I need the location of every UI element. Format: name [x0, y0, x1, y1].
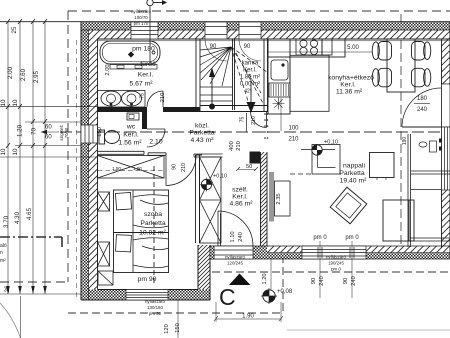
svg-text:2.95: 2.95 [33, 70, 40, 83]
svg-text:4.43 m²: 4.43 m² [190, 137, 214, 144]
svg-text:+0,10: +0,10 [324, 140, 338, 146]
svg-text:240: 240 [238, 232, 244, 242]
svg-text:pm 90: pm 90 [149, 311, 162, 316]
svg-text:szélf.: szélf. [232, 187, 248, 194]
svg-text:210: 210 [288, 137, 299, 143]
svg-text:nyílászáró: nyílászáró [225, 255, 246, 260]
svg-text:90: 90 [172, 164, 178, 170]
svg-text:közl.: közl. [195, 123, 209, 130]
svg-text:kamra: kamra [242, 61, 259, 67]
svg-text:5.00: 5.00 [347, 45, 359, 51]
svg-text:4.30: 4.30 [14, 211, 21, 224]
svg-text:1.90: 1.90 [242, 314, 254, 320]
svg-text:11.36 m²: 11.36 m² [336, 89, 363, 96]
svg-text:1.20: 1.20 [17, 124, 24, 137]
svg-text:90: 90 [244, 44, 251, 50]
svg-text:m²: m² [0, 258, 6, 264]
svg-text:60: 60 [45, 135, 52, 141]
svg-text:aló: aló [0, 243, 7, 249]
svg-text:C: C [219, 284, 236, 310]
svg-text:Ker.l.: Ker.l. [340, 82, 356, 89]
svg-text:10: 10 [0, 148, 7, 155]
svg-text:120: 120 [164, 324, 170, 334]
svg-text:pm 0: pm 0 [313, 235, 327, 241]
svg-text:Parketta: Parketta [189, 130, 215, 137]
svg-text:150: 150 [97, 127, 103, 137]
svg-text:60: 60 [45, 125, 52, 131]
svg-text:130/160: 130/160 [147, 305, 163, 310]
svg-text:4.65: 4.65 [26, 207, 33, 220]
svg-text:1.10: 1.10 [230, 231, 236, 242]
svg-text:pm 0: pm 0 [331, 267, 341, 272]
svg-text:240: 240 [417, 107, 428, 113]
svg-text:50: 50 [246, 164, 252, 170]
svg-text:70: 70 [31, 128, 38, 135]
svg-text:2.10: 2.10 [149, 139, 162, 146]
svg-text:pm 90: pm 90 [138, 276, 157, 283]
svg-text:+0,10: +0,10 [213, 174, 227, 180]
svg-text:1.90: 1.90 [133, 166, 142, 171]
svg-text:nyílászáró: nyílászáró [145, 299, 166, 304]
svg-text:120/245: 120/245 [227, 261, 243, 266]
svg-text:10: 10 [12, 99, 19, 106]
svg-text:26: 26 [4, 285, 11, 292]
svg-text:nyílászáró: nyílászáró [131, 9, 152, 14]
svg-text:1.80 m²: 1.80 m² [240, 75, 260, 81]
svg-text:2.00: 2.00 [105, 64, 111, 75]
svg-text:42°: 42° [244, 89, 252, 95]
svg-text:100/70: 100/70 [134, 15, 148, 20]
svg-text:75: 75 [240, 117, 246, 123]
svg-text:190/245: 190/245 [328, 261, 344, 266]
svg-text:pm 170: pm 170 [134, 21, 149, 26]
svg-text:90: 90 [210, 44, 217, 50]
svg-text:konyha+étkező: konyha+étkező [328, 75, 374, 82]
svg-text:nappali: nappali [343, 163, 365, 170]
svg-text:1.50: 1.50 [112, 166, 121, 171]
svg-text:Ker.l.: Ker.l. [123, 132, 139, 139]
svg-text:190: 190 [402, 137, 408, 146]
svg-text:19,40 m²: 19,40 m² [340, 178, 368, 185]
svg-text:210: 210 [251, 116, 257, 125]
svg-text:2.00: 2.00 [7, 66, 14, 79]
svg-text:10: 10 [0, 99, 7, 106]
svg-text:n: n [0, 250, 3, 256]
svg-text:0.00 m²: 0.00 m² [240, 82, 260, 88]
svg-text:Ker.l.: Ker.l. [138, 72, 154, 79]
svg-text:210: 210 [160, 93, 166, 103]
svg-text:Ker.l.: Ker.l. [243, 68, 257, 74]
svg-text:75: 75 [140, 93, 146, 99]
svg-text:Ker.l.: Ker.l. [232, 194, 248, 201]
svg-text:400: 400 [229, 141, 235, 151]
svg-text:4.86 m²: 4.86 m² [229, 201, 253, 208]
svg-text:100: 100 [288, 126, 299, 132]
svg-text:1.56 m²: 1.56 m² [118, 140, 142, 147]
svg-text:90: 90 [311, 278, 317, 284]
svg-text:pm 180: pm 180 [132, 46, 155, 53]
svg-text:10: 10 [12, 148, 19, 155]
svg-text:Parketta: Parketta [339, 170, 365, 177]
svg-text:90: 90 [343, 278, 349, 284]
svg-text:25: 25 [11, 26, 18, 33]
svg-text:pm 0: pm 0 [345, 235, 359, 241]
svg-text:2.60: 2.60 [20, 68, 27, 81]
svg-text:70/90: 70/90 [64, 127, 69, 138]
svg-text:210: 210 [236, 141, 242, 151]
svg-text:nyílászáró: nyílászáró [326, 255, 347, 260]
svg-text:szoba: szoba [144, 211, 162, 218]
svg-text:10.82 m²: 10.82 m² [139, 230, 167, 237]
svg-text:210: 210 [181, 163, 187, 172]
svg-text:180: 180 [417, 96, 428, 102]
svg-text:5.67 m²: 5.67 m² [129, 81, 153, 88]
svg-text:Parketta: Parketta [140, 220, 166, 227]
svg-text:1.20: 1.20 [262, 273, 268, 284]
svg-text:wc: wc [126, 124, 136, 131]
svg-text:3.70: 3.70 [3, 215, 10, 228]
svg-text:fürdő: fürdő [140, 61, 156, 68]
svg-text:+0,08: +0,08 [277, 289, 293, 295]
svg-text:2.35: 2.35 [276, 193, 282, 204]
